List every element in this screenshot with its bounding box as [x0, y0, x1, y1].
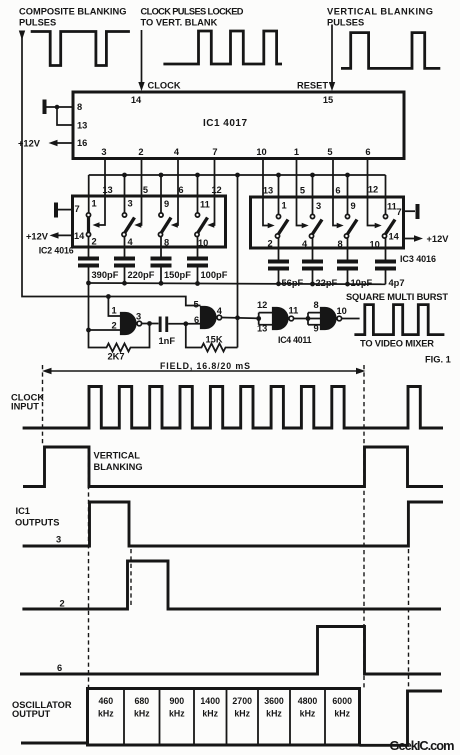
svg-text:8: 8: [314, 300, 319, 310]
svg-text:1: 1: [282, 201, 287, 211]
svg-text:7: 7: [397, 207, 402, 217]
frequency table cell labels: [98, 696, 352, 719]
svg-text:3600: 3600: [264, 696, 284, 706]
node junction on capacitor bus: [122, 281, 127, 286]
IC U2: IC2 4016 box: [73, 196, 226, 247]
IC1 output 2 waveform: [22, 561, 441, 609]
capacitor C9 1nF: [159, 317, 176, 347]
pin 14 label + +12V arrow (IC2): [26, 231, 85, 242]
svg-text:14: 14: [389, 232, 400, 242]
svg-text:GeekIC.com: GeekIC.com: [390, 738, 455, 753]
NAND gate U4c inverter (pins 12,13 -> 11): [256, 300, 298, 334]
svg-text:PULSES: PULSES: [19, 18, 56, 28]
node junction on capacitor bus: [310, 282, 315, 287]
wire IC1 pin 13 to junction: [57, 107, 73, 125]
node junction NAND1 input 2: [86, 328, 91, 333]
label VERTICAL BLANKING: [94, 451, 143, 473]
frequency table inner dividers: [124, 690, 325, 744]
svg-text:kHz: kHz: [98, 709, 114, 719]
svg-text:6: 6: [365, 147, 370, 157]
wire NAND4 output (pin 10): [342, 318, 360, 320]
svg-text:12: 12: [368, 185, 378, 195]
svg-text:IC1: IC1: [16, 506, 30, 516]
svg-text:13: 13: [263, 186, 273, 196]
IC U3: IC3 4016 box: [251, 197, 404, 248]
node bus junction to oscillator: [235, 173, 240, 178]
resistor R1 2K7 feedback: [89, 324, 150, 362]
wire NAND1 output to 1nF: [142, 323, 159, 325]
node junction on capacitor bus: [159, 281, 164, 286]
wire analog bus (switch commons): [89, 174, 386, 176]
svg-text:kHz: kHz: [202, 709, 218, 719]
svg-text:kHz: kHz: [300, 709, 316, 719]
IC2 switch pin labels bottom 2 4 8 10: [92, 237, 209, 249]
IC3 control pin labels 13 5 6 12: [263, 185, 378, 196]
dashed edge line at x131: [130, 549, 132, 608]
svg-text:2: 2: [138, 147, 143, 157]
svg-text:VERTICAL BLANKING: VERTICAL BLANKING: [327, 7, 433, 17]
node junction composite line to gate 1 input: [106, 294, 111, 299]
oscillator output waveform right: [360, 691, 443, 745]
svg-text:10: 10: [337, 306, 347, 316]
svg-text:RESET: RESET: [297, 81, 328, 91]
node bus junction / drop to IC2 switch C top: [159, 173, 164, 214]
svg-text:5: 5: [143, 185, 148, 195]
svg-text:VERTICAL: VERTICAL: [94, 451, 141, 461]
svg-text:TO VIDEO MIXER: TO VIDEO MIXER: [360, 339, 434, 349]
capacitor C6 22pF: [302, 238, 338, 288]
wire IC1 control to IC3 switch at x347.5: [333, 158, 344, 228]
ground bar at IC1 pin 8: [43, 100, 47, 115]
svg-text:1: 1: [294, 147, 299, 157]
node FIELD dimension arrow + label: [42, 361, 366, 374]
switch IC3-D (open lever): [382, 214, 395, 238]
wire IC1 control to IC3 switch at x385.5: [368, 158, 382, 228]
wire IC1 control to IC2 switch at x197.5: [207, 158, 214, 228]
svg-text:5: 5: [327, 147, 332, 157]
svg-text:4: 4: [128, 237, 134, 247]
svg-text:900: 900: [169, 696, 184, 706]
wire NAND3 output to NAND4: [294, 318, 321, 320]
svg-text:13: 13: [102, 185, 112, 195]
svg-text:6: 6: [57, 663, 62, 673]
svg-text:460: 460: [98, 696, 113, 706]
node junction on capacitor bus: [276, 281, 281, 286]
svg-text:22pF: 22pF: [316, 278, 338, 288]
switch IC2-D (open lever): [195, 213, 208, 237]
svg-text:4: 4: [217, 306, 223, 316]
svg-text:9: 9: [351, 201, 356, 211]
wire 1nF to NAND2 input 6: [168, 323, 200, 325]
svg-text:3: 3: [316, 201, 321, 211]
svg-text:12: 12: [211, 185, 221, 195]
IC1 output 3 waveform: [23, 502, 443, 546]
vertical blanking waveform: [341, 33, 440, 69]
oscillator output baseline left: [21, 742, 88, 745]
IC1 output 6 waveform: [20, 627, 441, 675]
svg-text:3: 3: [101, 147, 106, 157]
wire IC1 control to IC2 switch at x161: [171, 158, 178, 228]
capacitor C8 4p7: [375, 238, 405, 288]
node bus junction / drop to IC2 switch D top: [195, 173, 200, 214]
svg-text:COMPOSITE BLANKING: COMPOSITE BLANKING: [19, 7, 126, 17]
svg-text:6000: 6000: [332, 696, 352, 706]
svg-text:3: 3: [136, 312, 141, 322]
svg-text:2: 2: [60, 599, 65, 609]
svg-text:390pF: 390pF: [92, 270, 119, 280]
svg-text:IC3 4016: IC3 4016: [400, 254, 436, 264]
dashed field-end line: [363, 365, 365, 689]
svg-text:1: 1: [112, 306, 117, 316]
svg-text:150pF: 150pF: [164, 270, 191, 280]
NAND gate U4a (pins 1,2 -> 3): [112, 306, 142, 335]
svg-text:IC2 4016: IC2 4016: [39, 246, 74, 256]
wire composite blanking down-arrow + left rail: [19, 31, 109, 297]
svg-text:TO VERT. BLANK: TO VERT. BLANK: [141, 18, 218, 28]
svg-text:IC4 4011: IC4 4011: [278, 335, 312, 345]
pin 14 label + +12V arrow (IC3): [389, 232, 450, 245]
node junction on capacitor bus: [345, 282, 350, 287]
wire bus drop to IC2 switch A top: [88, 175, 90, 213]
vertical blanking timing waveform: [23, 447, 443, 487]
wire IC1 control to IC2 switch at x88.5: [93, 158, 106, 228]
wire IC1 control to IC3 switch at x278.5: [263, 158, 275, 228]
svg-text:BLANKING: BLANKING: [94, 462, 143, 472]
svg-text:2: 2: [92, 237, 97, 247]
svg-text:IC1 4017: IC1 4017: [203, 118, 247, 129]
svg-text:11: 11: [387, 202, 397, 212]
square multiburst waveform: [354, 305, 444, 335]
svg-text:OUTPUT: OUTPUT: [12, 709, 51, 719]
node junction NAND1 output / 2K7: [147, 321, 152, 326]
label IC1 OUTPUTS: [15, 506, 59, 528]
svg-text:3: 3: [56, 535, 61, 545]
svg-text:680: 680: [134, 696, 149, 706]
svg-text:11: 11: [289, 306, 299, 316]
wire IC1 control to IC2 switch at x124.5: [134, 158, 141, 228]
svg-text:FIG. 1: FIG. 1: [425, 355, 451, 365]
svg-text:1nF: 1nF: [159, 336, 176, 346]
switch IC2-C (open lever): [158, 213, 171, 237]
dashed edge line at x408: [408, 549, 410, 689]
label OSCILLATOR OUTPUT: [12, 700, 72, 719]
capacitor C1 390pF: [78, 237, 119, 284]
node junction NAND2 output / bus vertical: [235, 315, 240, 320]
svg-text:10: 10: [198, 238, 208, 248]
wire RESET arrow into IC1 pin 15: [297, 25, 335, 92]
svg-text:3: 3: [128, 199, 133, 209]
wire capacitor bus to NAND1 input 2: [89, 283, 121, 330]
svg-text:4800: 4800: [298, 696, 318, 706]
pin 7 label + stub + ground bar (IC2): [54, 203, 80, 218]
svg-text:6: 6: [178, 185, 183, 195]
frequency table frame: [88, 689, 360, 746]
resistor R2 15K feedback: [186, 324, 238, 352]
svg-text:OUTPUTS: OUTPUTS: [15, 518, 59, 528]
svg-text:INPUT: INPUT: [11, 402, 39, 412]
IC3 switch pin labels bottom 2 4 8 10: [268, 239, 380, 250]
NAND gate U4d inverter (pins 8,9 -> 10): [308, 300, 347, 334]
svg-text:9: 9: [314, 324, 319, 334]
svg-text:8: 8: [164, 238, 169, 248]
node bus junction / drop to IC2 switch B top: [122, 173, 127, 214]
node junction NAND2 input 6 / 15K: [183, 321, 188, 326]
svg-text:14: 14: [131, 95, 142, 105]
svg-text:9: 9: [164, 199, 169, 209]
svg-text:kHz: kHz: [234, 709, 250, 719]
svg-text:10: 10: [370, 240, 380, 250]
svg-text:13: 13: [257, 324, 267, 334]
svg-text:11: 11: [200, 200, 210, 210]
svg-text:1400: 1400: [200, 696, 220, 706]
capacitor C7 10pF: [337, 238, 373, 288]
IC2 control pin labels 13 5 6 12: [102, 185, 221, 195]
svg-text:kHz: kHz: [266, 709, 282, 719]
wire IC1 control to IC3 switch at x312.5: [297, 158, 309, 228]
svg-text:2700: 2700: [232, 696, 252, 706]
composite blanking waveform: [31, 32, 130, 66]
node COMPOSITE BLANKING PULSES label: [19, 7, 126, 28]
label CLOCK INPUT: [11, 393, 44, 412]
svg-text:+12V: +12V: [26, 232, 49, 242]
switch IC2-B (open lever): [122, 213, 135, 237]
svg-text:220pF: 220pF: [128, 270, 155, 280]
svg-text:13: 13: [77, 121, 87, 131]
svg-text:5: 5: [194, 300, 199, 310]
wire NAND2 output to NAND3: [222, 317, 259, 320]
switch IC2-A (closed): [86, 213, 90, 237]
svg-text:1: 1: [92, 199, 97, 209]
wire bus to NAND2 output node (vertical): [237, 175, 239, 348]
svg-text:7: 7: [212, 147, 217, 157]
svg-text:6: 6: [194, 315, 199, 325]
clock input waveform: [23, 387, 443, 429]
svg-text:FIELD, 16.8/20 mS: FIELD, 16.8/20 mS: [160, 361, 250, 371]
NAND gate U4b (pins 5,6 -> 4): [194, 300, 223, 329]
svg-text:12: 12: [257, 300, 267, 310]
svg-text:10pF: 10pF: [351, 278, 373, 288]
capacitor C2 220pF: [114, 237, 155, 284]
svg-text:kHz: kHz: [134, 709, 150, 719]
svg-text:4p7: 4p7: [389, 278, 405, 288]
svg-text:14: 14: [74, 231, 85, 241]
svg-text:8: 8: [338, 239, 343, 249]
clock pulses waveform: [163, 31, 282, 64]
node junction on capacitor bus: [195, 281, 200, 286]
switch IC3-C (open lever): [344, 214, 357, 238]
switch IC3-B (open lever): [309, 214, 322, 238]
svg-text:5: 5: [300, 186, 305, 196]
svg-text:+12V: +12V: [427, 234, 450, 244]
node bus junction / drop to IC3 switch C top: [345, 173, 350, 215]
IC U1: IC1 4017 box: [73, 92, 404, 159]
node VERTICAL BLANKING PULSES label: [327, 7, 433, 28]
svg-text:10: 10: [256, 147, 266, 157]
capacitor C4 100pF: [187, 237, 228, 284]
svg-text:2: 2: [268, 239, 273, 249]
svg-text:8: 8: [77, 102, 82, 112]
svg-text:kHz: kHz: [169, 709, 185, 719]
svg-text:2K7: 2K7: [108, 352, 125, 362]
node junction pin8 pin13: [55, 105, 60, 110]
svg-text:7: 7: [75, 204, 80, 214]
dashed edge line at x88: [88, 448, 90, 688]
svg-text:6: 6: [335, 186, 340, 196]
wire capacitor bottom bus: [89, 283, 386, 284]
wire IC1 pin 8 to logic-low bar: [46, 106, 73, 108]
node junction on capacitor bus: [86, 281, 91, 286]
svg-text:4: 4: [302, 239, 308, 249]
node junction NAND4 input: [306, 316, 311, 321]
svg-text:100pF: 100pF: [201, 270, 228, 280]
wire +12V arrow at IC1 pin 16: [18, 139, 73, 149]
IC3 switch pin labels top 1 3 9 11: [282, 201, 397, 212]
svg-text:kHz: kHz: [334, 709, 350, 719]
node CLOCK PULSES LOCKED TO VERT. BLANK label: [141, 7, 244, 28]
svg-text:4: 4: [174, 147, 180, 157]
wire composite line to NAND2 input 5: [108, 297, 200, 306]
svg-text:CLOCK: CLOCK: [148, 81, 181, 91]
capacitor C5 56pF: [268, 238, 304, 288]
IC2 switch pin labels top 1 3 9 11: [92, 199, 210, 210]
pin 7 label + stub + ground bar (IC3): [397, 204, 420, 219]
IC1 bottom pin labels 3 2 4 7 10 1 5 6: [101, 147, 370, 157]
svg-text:CLOCK PULSES LOCKED: CLOCK PULSES LOCKED: [141, 7, 244, 17]
svg-text:SQUARE MULTI BURST: SQUARE MULTI BURST: [346, 292, 448, 302]
svg-text:2: 2: [112, 321, 117, 331]
svg-text:+12V: +12V: [18, 139, 41, 149]
svg-text:15K: 15K: [206, 335, 223, 345]
node bus junction / drop to IC3 switch A top: [276, 173, 281, 215]
wire junction to NAND1 input 1: [108, 297, 120, 317]
dashed field-start line: [42, 365, 44, 446]
svg-text:15: 15: [323, 95, 333, 105]
node bus junction / drop to IC3 switch B top: [310, 173, 315, 215]
wire CLOCK arrow into IC1 pin 14: [138, 30, 181, 91]
capacitor C3 150pF: [151, 237, 192, 284]
wire bus drop to IC3 switch D top: [385, 175, 387, 215]
switch IC3-A (open lever): [275, 214, 288, 238]
svg-text:16: 16: [77, 138, 87, 148]
